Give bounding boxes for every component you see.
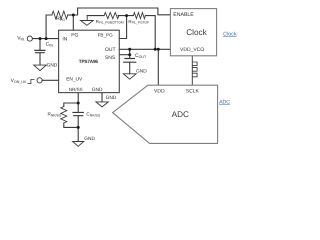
svg-text:VON_UV: VON_UV [11,78,27,84]
svg-text:GND: GND [84,136,95,142]
terminal VIN [27,36,32,41]
ADC block [113,85,218,143]
svg-text:TPS7A96: TPS7A96 [79,59,99,64]
wire RFIL_PGTOP to OUT rail [145,16,155,50]
svg-text:CNR/SS: CNR/SS [86,111,100,117]
svg-text:COUT: COUT [135,53,147,59]
capacitor CNRSS [73,103,84,116]
clock signal wire to SCLK [191,56,193,85]
node OUT-RFIL [154,48,157,51]
resistor RPG [52,11,68,19]
svg-text:ADC: ADC [172,110,189,119]
node VIN-CIN [39,37,42,40]
svg-text:OUT: OUT [105,47,116,53]
ground COUT [123,74,136,79]
node NR/SS bottom [77,126,80,129]
svg-text:RFIL_PGBOTTOM: RFIL_PGBOTTOM [96,19,124,25]
wire gnd to RFIL_PGBOTTOM [87,15,104,17]
node NR/SS top [77,102,80,105]
svg-text:FB_PG: FB_PG [98,33,113,38]
svg-text:GND: GND [136,69,147,75]
wire ENABLE net [73,8,170,15]
wire SNS tie [129,49,131,58]
node OUT-COUT [128,48,131,51]
svg-text:SCLK: SCLK [186,89,200,95]
svg-text:IN: IN [62,37,67,43]
wire FB_PG branch [119,16,126,39]
resistor RFIL_PGTOP [133,13,145,19]
ground IC GND [96,102,108,107]
wire VIN to IN pin [32,38,58,40]
wire RNRSS bottom [64,123,78,127]
ground CIN [34,65,47,71]
svg-text:VDD_VCO: VDD_VCO [180,47,204,53]
svg-text:GND: GND [47,62,58,68]
wire RPG riser [46,15,52,39]
wire EN_UV [42,79,58,81]
resistor RFIL_PGBOTTOM [104,13,119,19]
svg-text:RFIL_PGTOP: RFIL_PGTOP [128,19,149,25]
node SNS [128,53,131,56]
svg-text:GND: GND [92,87,103,93]
svg-text:ENABLE: ENABLE [173,12,194,18]
IC U1 TPS7A96 LDO [59,30,120,92]
wire VDD descent to ADC [157,49,159,85]
wire CIN branch [39,39,41,51]
node OUT-VDD [157,48,160,51]
Clock block [170,9,216,56]
wire tap node [118,15,133,17]
svg-text:ADC: ADC [219,99,230,105]
node VIN-RPG [45,37,48,40]
svg-text:GND: GND [106,95,117,101]
svg-text:CIN: CIN [46,41,54,47]
capacitor CIN [35,50,45,52]
svg-text:VDD: VDD [154,89,165,95]
terminal VON_UV [37,78,42,83]
resistor RNRSS [61,107,67,124]
wire NR/SS stub [77,93,79,103]
svg-text:EN_UV: EN_UV [66,77,83,83]
wire RPG to PG node [68,14,74,16]
wire SNS pin [119,54,129,56]
wire GND pin stub [101,93,103,102]
ground NRSS [73,142,84,147]
svg-text:Clock: Clock [186,28,207,37]
node FB_PG tap [125,14,128,17]
svg-text:SNS: SNS [105,55,116,61]
ground divider [81,16,94,26]
capacitor COUT [124,59,136,63]
wire OUT rail [119,48,170,50]
svg-text:PG: PG [71,32,78,38]
svg-text:VIN: VIN [17,35,24,41]
wire to RNRSS [64,103,78,107]
svg-text:Clock: Clock [223,31,237,37]
wire PG pin [72,15,74,30]
node PG [72,14,75,17]
svg-text:RNR/SS: RNR/SS [48,112,62,118]
svg-text:NR/SS: NR/SS [69,87,83,92]
waveform step symbol [28,79,35,83]
